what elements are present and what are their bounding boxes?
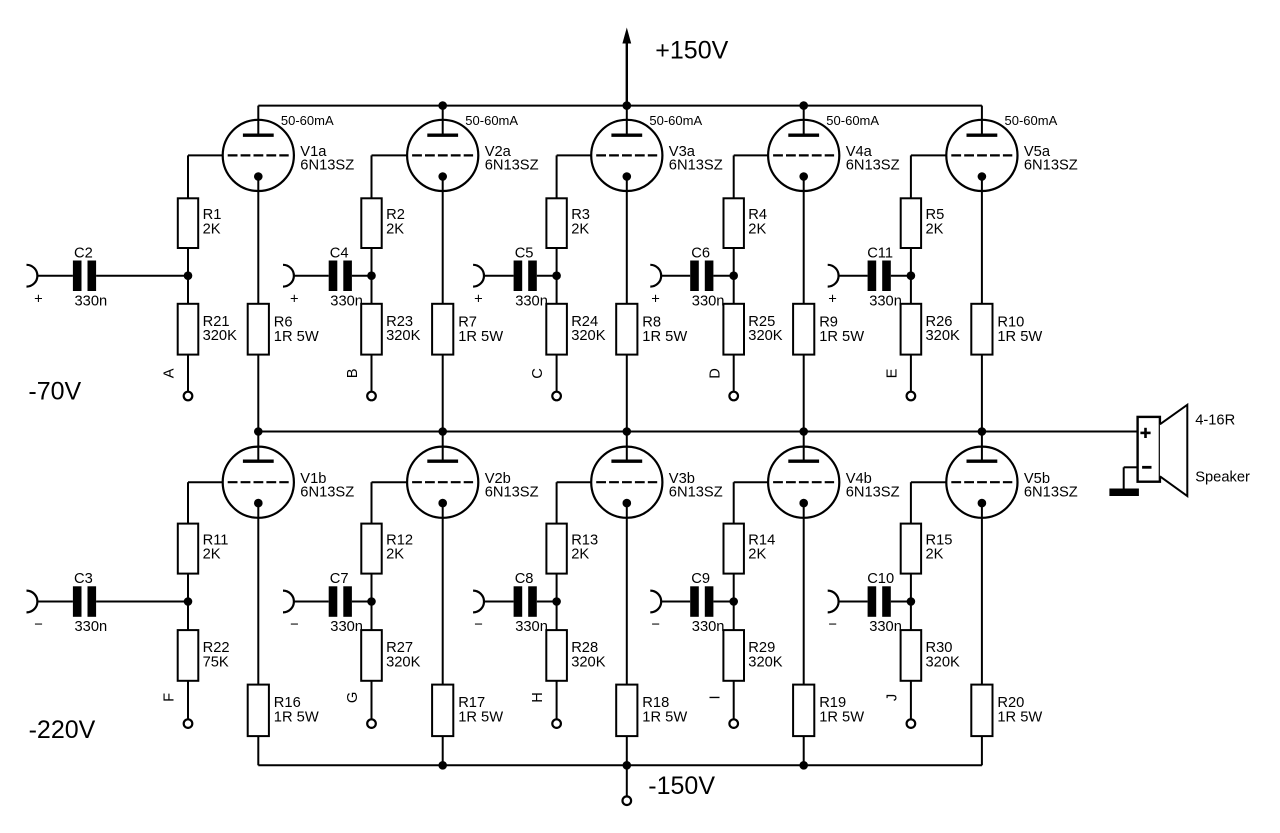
svg-text:6N13SZ: 6N13SZ: [1024, 158, 1078, 174]
svg-text:6N13SZ: 6N13SZ: [485, 158, 539, 174]
wire R12 to R27: [371, 574, 373, 631]
svg-text:1R 5W: 1R 5W: [642, 329, 687, 345]
wire grid of V5b: [911, 482, 946, 523]
triode V5b: [946, 432, 1017, 518]
label V5a 6N13SZ: [1024, 144, 1078, 173]
svg-text:6N13SZ: 6N13SZ: [846, 158, 900, 174]
resistor R24 320K: [546, 304, 605, 355]
wire R14 to R29: [733, 574, 735, 631]
wire cathode of V4b to R19: [803, 503, 805, 684]
svg-text:C11: C11: [867, 245, 893, 261]
svg-text:6N13SZ: 6N13SZ: [300, 158, 354, 174]
wire R24 to terminal C: [556, 355, 558, 392]
svg-text:1R 5W: 1R 5W: [274, 710, 319, 726]
node junction C6/R4/R25: [729, 271, 738, 280]
svg-text:1R 5W: 1R 5W: [642, 710, 687, 726]
wire R13 to R28: [556, 574, 558, 631]
wire input to C3: [37, 601, 73, 603]
wire input to C2: [37, 275, 73, 277]
resistor R28 320K: [546, 630, 605, 681]
resistor R23 320K: [361, 304, 420, 355]
svg-text:6N13SZ: 6N13SZ: [300, 484, 354, 500]
wire input to C5: [484, 275, 514, 277]
label V2b 6N13SZ: [485, 471, 539, 500]
svg-text:6N13SZ: 6N13SZ: [1024, 484, 1078, 500]
wire R22 to terminal F: [187, 681, 189, 720]
svg-text:320K: 320K: [926, 328, 961, 344]
svg-text:320K: 320K: [748, 328, 783, 344]
wire grid of V5a: [911, 155, 946, 198]
wire cathode of V2a to R7: [442, 177, 444, 304]
wire R7 to rail: [442, 355, 444, 432]
triode V1b: [223, 432, 294, 518]
wire cathode of V3b to R18: [626, 503, 628, 684]
wire cathode of V3a to R8: [626, 177, 628, 304]
label V4a 6N13SZ: [846, 144, 900, 173]
resistor R15 2K: [901, 524, 953, 574]
svg-text:1R 5W: 1R 5W: [819, 710, 864, 726]
node dots on output rail: [254, 427, 986, 436]
wire +150V top rail: [258, 105, 982, 107]
svg-text:H: H: [530, 692, 546, 703]
capacitor C8 330n: [514, 571, 548, 635]
svg-text:-150V: -150V: [648, 772, 715, 800]
node junction C11/R5/R26: [907, 271, 916, 280]
svg-text:2K: 2K: [926, 547, 944, 563]
resistor R5 2K: [901, 198, 945, 248]
wire R28 to terminal H: [556, 681, 558, 720]
wire grid of V4b: [734, 482, 768, 523]
wire C11 to node: [891, 275, 911, 277]
wire cathode of V5b to R20: [981, 503, 983, 684]
wire grid of V2b: [372, 482, 408, 523]
node terminal A: [184, 392, 193, 401]
wire R3 to R24: [556, 248, 558, 304]
wire R29 to terminal I: [733, 681, 735, 720]
wire R30 to terminal J: [910, 681, 912, 720]
resistor R1 2K: [178, 198, 222, 248]
resistor R16 1R 5W: [248, 685, 319, 737]
capacitor C9 330n: [690, 571, 724, 635]
input connector arc (C11 input): [828, 265, 839, 287]
wire grid of V1b: [188, 482, 223, 523]
wire R25 to terminal D: [733, 355, 735, 392]
wire R1 to R21: [187, 248, 189, 304]
svg-text:50-60mA: 50-60mA: [281, 113, 334, 128]
capacitor C11 330n: [867, 245, 902, 309]
wire R5 to R26: [910, 248, 912, 304]
input connector arc (C4 input): [283, 265, 294, 287]
wire R4 to R25: [733, 248, 735, 304]
node junction C5/R3/R24: [552, 271, 561, 280]
resistor R4 2K: [724, 198, 768, 248]
label V5b 6N13SZ: [1024, 471, 1078, 500]
resistor R10 1R 5W: [971, 304, 1042, 355]
capacitor C10 330n: [867, 571, 902, 635]
resistor R18 1R 5W: [616, 685, 687, 737]
svg-text:320K: 320K: [386, 328, 421, 344]
label V3a 6N13SZ: [669, 144, 723, 173]
capacitor C4 330n: [329, 245, 363, 309]
wire input to C6: [661, 275, 690, 277]
node terminal H: [552, 719, 561, 728]
input connector arc (C7 input): [283, 591, 294, 613]
resistor R19 1R 5W: [793, 685, 864, 737]
svg-text:C7: C7: [330, 571, 349, 587]
wire cathode of V5a to R10: [981, 177, 983, 304]
svg-text:−: −: [34, 617, 43, 633]
triode V4a: [768, 106, 839, 191]
node junction C10/R15/R30: [907, 597, 916, 606]
svg-text:I: I: [707, 695, 723, 699]
svg-text:C3: C3: [74, 571, 93, 587]
wire grid of V2a: [372, 155, 408, 198]
svg-text:+: +: [651, 291, 660, 307]
power +150V arrow: [622, 28, 631, 106]
node dots on -150V rail: [438, 761, 808, 770]
triode V3a: [591, 106, 662, 191]
node junction C9/R14/R29: [729, 597, 738, 606]
svg-text:330n: 330n: [75, 619, 108, 635]
svg-text:6N13SZ: 6N13SZ: [669, 158, 723, 174]
triode V3b: [591, 432, 662, 518]
svg-text:C5: C5: [515, 245, 534, 261]
svg-text:−: −: [290, 617, 299, 633]
svg-text:2K: 2K: [748, 221, 766, 237]
svg-text:-220V: -220V: [29, 716, 96, 744]
svg-text:6N13SZ: 6N13SZ: [669, 484, 723, 500]
wire R26 to terminal E: [910, 355, 912, 392]
svg-text:−: −: [651, 617, 660, 633]
svg-text:330n: 330n: [869, 619, 902, 635]
input connector arc (C3 input): [27, 591, 38, 613]
svg-text:1R 5W: 1R 5W: [458, 710, 503, 726]
speaker horn: [1160, 405, 1187, 496]
svg-text:320K: 320K: [926, 655, 961, 671]
svg-text:2K: 2K: [386, 221, 404, 237]
svg-text:G: G: [345, 692, 361, 703]
wire C9 to node: [713, 601, 733, 603]
wire C5 to node: [537, 275, 557, 277]
svg-text:C4: C4: [330, 245, 349, 261]
svg-text:320K: 320K: [748, 655, 783, 671]
svg-text:E: E: [885, 368, 901, 378]
svg-text:50-60mA: 50-60mA: [1005, 113, 1058, 128]
svg-text:330n: 330n: [75, 293, 108, 309]
wire C10 to node: [891, 601, 911, 603]
node junction C2/R1/R21: [184, 271, 193, 280]
svg-text:+: +: [290, 291, 299, 307]
wire input to C10: [839, 601, 868, 603]
wire R15 to R30: [910, 574, 912, 631]
resistor R26 320K: [901, 304, 960, 355]
svg-text:75K: 75K: [203, 655, 229, 671]
svg-text:330n: 330n: [330, 293, 363, 309]
resistor R7 1R 5W: [432, 304, 503, 355]
wire grid of V3b: [557, 482, 592, 523]
resistor R9 1R 5W: [793, 304, 864, 355]
wire input to C4: [294, 275, 329, 277]
node terminal G: [367, 719, 376, 728]
wire cathode of V1a to R6: [257, 177, 259, 304]
svg-text:+: +: [474, 291, 483, 307]
node junction C4/R2/R23: [367, 271, 376, 280]
svg-text:J: J: [884, 694, 900, 701]
svg-text:330n: 330n: [869, 293, 902, 309]
wire R6 to rail: [257, 355, 259, 432]
node junction C7/R12/R27: [367, 597, 376, 606]
wire R2 to R23: [371, 248, 373, 304]
wire C4 to node: [352, 275, 372, 277]
resistor R8 1R 5W: [616, 304, 687, 355]
wire R21 to terminal A: [187, 355, 189, 392]
svg-text:2K: 2K: [203, 221, 221, 237]
wire R9 to rail: [803, 355, 805, 432]
node terminal -150V: [623, 796, 632, 805]
wire R8 to rail: [626, 355, 628, 432]
svg-text:2K: 2K: [571, 547, 589, 563]
label V1b 6N13SZ: [300, 471, 354, 500]
wire R20 to rail: [981, 736, 983, 765]
resistor R14 2K: [724, 524, 776, 574]
resistor R17 1R 5W: [432, 685, 503, 737]
capacitor C2 330n: [73, 245, 107, 309]
svg-text:C8: C8: [515, 571, 534, 587]
svg-text:A: A: [162, 368, 178, 378]
capacitor C7 330n: [329, 571, 363, 635]
node terminal B: [367, 392, 376, 401]
svg-text:50-60mA: 50-60mA: [826, 113, 879, 128]
triode V4b: [768, 432, 839, 518]
wire R27 to terminal G: [371, 681, 373, 720]
speaker terminal + mark: [1140, 428, 1150, 438]
svg-text:1R 5W: 1R 5W: [997, 329, 1042, 345]
wire cathode of V2b to R17: [442, 503, 444, 684]
svg-text:−: −: [828, 617, 837, 633]
input connector arc (C5 input): [473, 265, 484, 287]
svg-text:+: +: [34, 291, 43, 307]
svg-text:C9: C9: [691, 571, 710, 587]
svg-text:2K: 2K: [571, 221, 589, 237]
resistor R25 320K: [723, 304, 782, 355]
svg-text:50-60mA: 50-60mA: [465, 113, 518, 128]
wire cathode of V1b to R16: [257, 503, 259, 684]
wire R17 to rail: [442, 736, 444, 765]
svg-text:2K: 2K: [203, 547, 221, 563]
resistor R29 320K: [723, 630, 782, 681]
capacitor C6 330n: [690, 245, 724, 309]
label V3b 6N13SZ: [669, 471, 723, 500]
wire C2 to node: [96, 275, 188, 277]
node junction C3/R11/R22: [184, 597, 193, 606]
svg-text:320K: 320K: [571, 328, 606, 344]
resistor R21 320K: [178, 304, 237, 355]
triode V2b: [407, 432, 478, 518]
wire R10 to rail: [981, 355, 983, 432]
wire speaker - to ground: [1124, 467, 1138, 488]
svg-text:330n: 330n: [515, 293, 548, 309]
svg-text:6N13SZ: 6N13SZ: [485, 484, 539, 500]
wire C3 to node: [96, 601, 188, 603]
svg-text:2K: 2K: [748, 547, 766, 563]
wire C7 to node: [352, 601, 372, 603]
svg-text:320K: 320K: [571, 655, 606, 671]
wire R19 to rail: [803, 736, 805, 765]
triode V5a: [946, 106, 1017, 191]
wire grid of V1a: [188, 155, 223, 198]
svg-text:C6: C6: [691, 245, 710, 261]
node junction C8/R13/R28: [552, 597, 561, 606]
resistor R30 320K: [901, 630, 960, 681]
resistor R13 2K: [546, 524, 598, 574]
svg-text:4-16R: 4-16R: [1195, 413, 1235, 429]
wire -150V terminal stub: [626, 765, 628, 796]
svg-text:320K: 320K: [203, 328, 238, 344]
svg-text:330n: 330n: [692, 293, 725, 309]
wire C8 to node: [537, 601, 557, 603]
input connector arc (C10 input): [828, 591, 839, 613]
label V4b 6N13SZ: [846, 471, 900, 500]
label V1a 6N13SZ: [300, 144, 354, 173]
input connector arc (C9 input): [650, 591, 661, 613]
node dots on +150V rail: [438, 101, 808, 110]
input connector arc (C8 input): [473, 591, 484, 613]
node terminal D: [729, 392, 738, 401]
resistor R3 2K: [546, 198, 590, 248]
svg-text:Speaker: Speaker: [1195, 470, 1250, 486]
capacitor C5 330n: [514, 245, 548, 309]
wire R11 to R22: [187, 574, 189, 631]
wire grid of V4a: [734, 155, 768, 198]
wire cathode of V4a to R9: [803, 177, 805, 304]
svg-text:1R 5W: 1R 5W: [997, 710, 1042, 726]
resistor R12 2K: [361, 524, 413, 574]
svg-text:2K: 2K: [386, 547, 404, 563]
wire input to C7: [294, 601, 329, 603]
speaker LS1 body: [1138, 417, 1160, 482]
svg-text:D: D: [707, 368, 723, 379]
ground symbol: [1109, 489, 1139, 497]
svg-text:1R 5W: 1R 5W: [274, 329, 319, 345]
svg-text:+: +: [828, 291, 837, 307]
capacitor C3 330n: [73, 571, 107, 635]
wire input to C8: [484, 601, 514, 603]
resistor R27 320K: [361, 630, 420, 681]
svg-text:330n: 330n: [330, 619, 363, 635]
wire grid of V3a: [557, 155, 592, 198]
node terminal E: [907, 392, 916, 401]
speaker terminal - mark: [1142, 466, 1151, 469]
wire R16 to rail: [257, 736, 259, 765]
triode V1a: [223, 106, 294, 191]
svg-text:C2: C2: [74, 245, 93, 261]
svg-text:6N13SZ: 6N13SZ: [846, 484, 900, 500]
svg-text:330n: 330n: [515, 619, 548, 635]
svg-text:F: F: [162, 693, 178, 702]
node terminal C: [552, 392, 561, 401]
resistor R6 1R 5W: [248, 304, 319, 355]
svg-text:330n: 330n: [692, 619, 725, 635]
svg-text:-70V: -70V: [28, 378, 81, 406]
wire R23 to terminal B: [371, 355, 373, 392]
label V2a 6N13SZ: [485, 144, 539, 173]
svg-text:320K: 320K: [386, 655, 421, 671]
resistor R20 1R 5W: [971, 685, 1042, 737]
wire input to C11: [839, 275, 868, 277]
resistor R22 75K: [178, 630, 230, 681]
triode V2a: [407, 106, 478, 191]
wire -150V bottom rail: [258, 764, 982, 766]
resistor R11 2K: [178, 524, 229, 574]
node terminal I: [729, 719, 738, 728]
wire R18 to rail: [626, 736, 628, 765]
svg-text:1R 5W: 1R 5W: [819, 329, 864, 345]
svg-text:C10: C10: [867, 571, 894, 587]
svg-text:−: −: [474, 617, 483, 633]
svg-text:B: B: [345, 368, 361, 378]
resistor R2 2K: [361, 198, 405, 248]
wire input to C9: [661, 601, 690, 603]
node terminal F: [184, 719, 193, 728]
svg-text:C: C: [530, 368, 546, 379]
input connector arc (C6 input): [650, 265, 661, 287]
input connector arc (C2 input): [27, 265, 38, 287]
wire C6 to node: [713, 275, 733, 277]
svg-text:+150V: +150V: [655, 36, 728, 64]
node terminal J: [907, 719, 916, 728]
svg-text:50-60mA: 50-60mA: [649, 113, 702, 128]
svg-text:2K: 2K: [926, 221, 944, 237]
svg-text:1R 5W: 1R 5W: [458, 329, 503, 345]
wire output rail to speaker: [258, 431, 1137, 433]
